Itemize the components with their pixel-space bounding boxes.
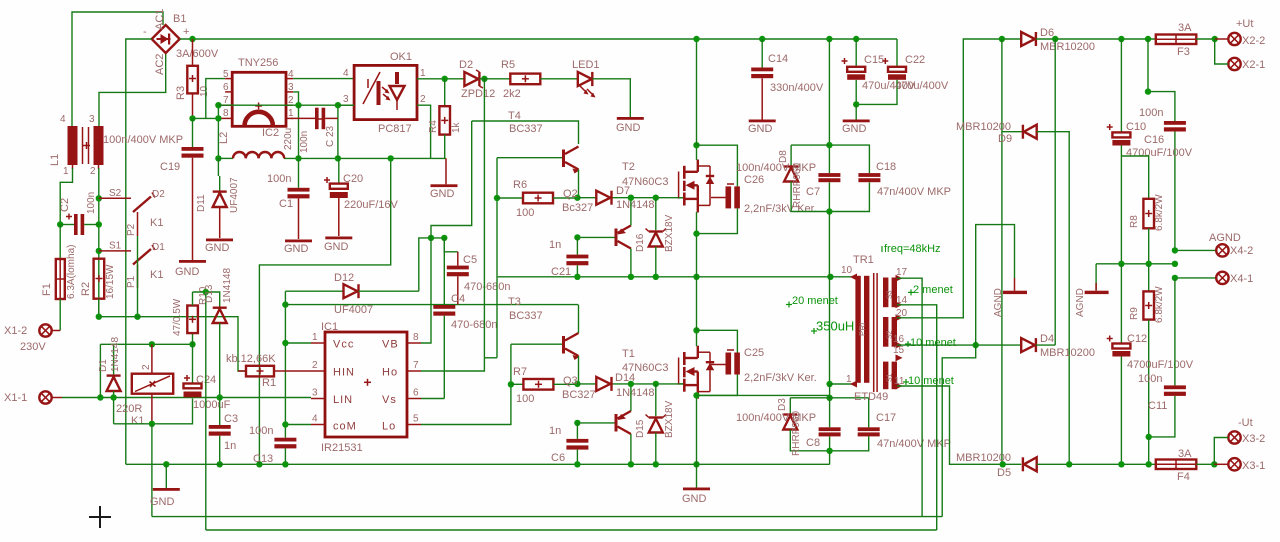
svg-text:-: - bbox=[143, 26, 147, 38]
node gnd D15 bbox=[653, 461, 659, 467]
diode D3 RHRP960 bbox=[777, 398, 830, 456]
svg-text:2,2nF/3kV Ker.: 2,2nF/3kV Ker. bbox=[744, 372, 817, 384]
svg-text:220u: 220u bbox=[283, 128, 294, 150]
svg-text:4: 4 bbox=[288, 69, 294, 80]
capacitor C20 electrolytic bbox=[324, 158, 398, 236]
primary ground bus bbox=[126, 463, 830, 465]
svg-text:2 menet: 2 menet bbox=[913, 284, 953, 296]
wire R6 node column bbox=[496, 198, 498, 358]
wire TR pin20 up to D6 bbox=[897, 39, 1021, 318]
wire snubber2 row bbox=[790, 397, 868, 399]
svg-text:47n/400V MKP: 47n/400V MKP bbox=[877, 186, 951, 198]
node F3 in bbox=[1145, 36, 1151, 42]
resistor R1 bbox=[226, 353, 311, 389]
node D2 cathode bbox=[481, 76, 487, 82]
svg-text:X1-1: X1-1 bbox=[4, 392, 27, 404]
node X3 split bbox=[1211, 461, 1217, 467]
wire X1-1 row to IC1 LIN bbox=[62, 397, 311, 399]
svg-text:+Ut: +Ut bbox=[1236, 18, 1253, 30]
svg-text:T3: T3 bbox=[508, 296, 521, 308]
svg-text:BC337: BC337 bbox=[509, 123, 543, 135]
svg-text:C10: C10 bbox=[1126, 121, 1146, 133]
wire Lo link bbox=[421, 384, 511, 424]
svg-text:X3-2: X3-2 bbox=[1242, 433, 1265, 445]
svg-text:1n: 1n bbox=[224, 440, 236, 452]
label 2 menet green bbox=[908, 284, 953, 296]
svg-text:R8: R8 bbox=[1129, 215, 1140, 228]
wire relay drive down-left long bbox=[151, 424, 153, 517]
svg-text:GND: GND bbox=[205, 242, 230, 254]
svg-text:D11: D11 bbox=[196, 194, 207, 212]
capacitor C1 bbox=[267, 158, 310, 239]
svg-text:D2: D2 bbox=[459, 59, 473, 71]
wire IC1 pin4 stub bbox=[285, 424, 311, 426]
svg-text:X4-1: X4-1 bbox=[1230, 273, 1253, 285]
svg-text:C16: C16 bbox=[1144, 134, 1164, 146]
svg-text:LIN: LIN bbox=[333, 394, 353, 406]
svg-text:R2: R2 bbox=[80, 282, 92, 296]
wire winding return bottom long bbox=[206, 529, 937, 531]
ground GND below LED1 bbox=[616, 117, 644, 134]
wire X4-2 row bbox=[1175, 249, 1216, 251]
svg-text:8: 8 bbox=[223, 108, 229, 119]
svg-text:4700uF/100V: 4700uF/100V bbox=[1127, 359, 1194, 371]
wire C4 bottom to IC1 pin6 bbox=[421, 398, 444, 400]
wire TNY pins 7-8 column bbox=[217, 105, 219, 158]
node top bus C15 bbox=[853, 36, 859, 42]
svg-text:R6: R6 bbox=[513, 179, 527, 191]
node T1 drain bbox=[693, 327, 699, 333]
svg-text:+: + bbox=[183, 26, 189, 38]
svg-text:1: 1 bbox=[288, 108, 294, 119]
node D6 anode col bbox=[999, 36, 1005, 42]
svg-text:6.8k/2W: 6.8k/2W bbox=[1154, 286, 1165, 323]
node VS Q2 bbox=[628, 274, 634, 280]
wire C23 column bbox=[337, 105, 339, 158]
capacitor C16 bbox=[1126, 39, 1193, 250]
svg-text:6.3A(lomha): 6.3A(lomha) bbox=[66, 245, 77, 299]
svg-text:D16: D16 bbox=[635, 233, 646, 252]
diode D14 1N4148 bbox=[596, 372, 654, 399]
svg-text:47N60C3: 47N60C3 bbox=[622, 176, 668, 188]
svg-text:20 menet: 20 menet bbox=[792, 295, 838, 307]
diode D1 1N4148 bbox=[98, 337, 121, 424]
svg-text:7: 7 bbox=[223, 95, 229, 106]
svg-text:100n: 100n bbox=[249, 425, 273, 437]
svg-text:6: 6 bbox=[413, 388, 419, 399]
svg-text:220R: 220R bbox=[116, 403, 142, 415]
svg-text:MBR10200: MBR10200 bbox=[1040, 41, 1095, 53]
svg-text:C5: C5 bbox=[463, 254, 477, 266]
svg-text:C8: C8 bbox=[806, 437, 820, 449]
svg-text:BZX18V: BZX18V bbox=[664, 400, 675, 438]
svg-text:B1: B1 bbox=[173, 13, 186, 25]
svg-text:2: 2 bbox=[90, 166, 96, 177]
wire bridge minus to primary GND vertical bbox=[126, 39, 152, 464]
svg-text:5: 5 bbox=[413, 414, 419, 425]
node C21 top bbox=[574, 234, 580, 240]
svg-text:ETD49: ETD49 bbox=[854, 391, 888, 403]
capacitor C15 electrolytic bbox=[842, 39, 916, 104]
wire T1 drain to VS bus bbox=[696, 277, 698, 331]
resistor R4 bbox=[428, 79, 462, 159]
connector X4-2 bbox=[1209, 232, 1253, 257]
svg-text:Ho: Ho bbox=[382, 367, 398, 379]
node gate upper D16 tap bbox=[653, 195, 659, 201]
bridge rectifier B1 bbox=[143, 9, 219, 75]
diode D5 MBR10200 bbox=[956, 452, 1156, 479]
ground GND C15 bbox=[842, 104, 870, 135]
svg-text:3A: 3A bbox=[1178, 448, 1192, 460]
diode D6 MBR10200 bbox=[1021, 27, 1095, 53]
ground GND below C1 bbox=[284, 240, 312, 256]
node VS snubber bbox=[827, 274, 833, 280]
node D5 anode bbox=[1000, 461, 1006, 467]
svg-text:C15: C15 bbox=[864, 54, 884, 66]
svg-text:X2-2: X2-2 bbox=[1242, 35, 1265, 47]
label 20 menet green bbox=[786, 295, 838, 308]
svg-text:GND: GND bbox=[748, 123, 773, 135]
capacitor C18 bbox=[829, 161, 951, 212]
svg-text:X2-1: X2-1 bbox=[1242, 59, 1265, 71]
svg-text:7: 7 bbox=[413, 360, 419, 371]
svg-text:IC2: IC2 bbox=[262, 127, 279, 139]
svg-text:2: 2 bbox=[288, 95, 294, 106]
node T2 drain bbox=[693, 142, 699, 148]
svg-text:470-680n: 470-680n bbox=[451, 319, 498, 331]
svg-text:GND: GND bbox=[284, 243, 309, 255]
node top bus T2 bbox=[693, 36, 699, 42]
svg-text:47N60C3: 47N60C3 bbox=[622, 362, 668, 374]
node OK1 pin3 bbox=[335, 102, 341, 108]
svg-text:coM: coM bbox=[333, 421, 357, 433]
wire L1 pin2 down bbox=[98, 168, 100, 317]
wire center tap to AGND arch bbox=[976, 225, 1015, 346]
node center tap bbox=[973, 342, 979, 348]
wire winding feed long down bbox=[205, 292, 207, 530]
svg-text:3A: 3A bbox=[1178, 22, 1192, 34]
svg-text:100n/400V MKP: 100n/400V MKP bbox=[736, 162, 816, 174]
node snubber2 bottom bbox=[826, 448, 832, 454]
node relay row R10/C24 bbox=[189, 341, 195, 347]
node D1 bottom on X1 row bbox=[110, 394, 116, 400]
resistor R3 bbox=[175, 39, 210, 118]
capacitor C11 bbox=[1138, 278, 1186, 437]
node S2 row bbox=[96, 195, 102, 201]
node S1 row bbox=[96, 248, 102, 254]
inductor L1 common mode choke bbox=[49, 114, 104, 177]
wire relay poles to sense row bbox=[137, 236, 139, 317]
svg-text:350uH: 350uH bbox=[816, 319, 854, 334]
node VCC pin1 bbox=[282, 340, 288, 346]
node T3 emitter row bbox=[574, 381, 580, 387]
svg-text:100n: 100n bbox=[267, 173, 291, 185]
svg-text:K1: K1 bbox=[150, 217, 163, 229]
svg-text:1: 1 bbox=[63, 166, 69, 177]
svg-text:AC1: AC1 bbox=[154, 9, 166, 30]
svg-text:C4: C4 bbox=[451, 293, 465, 305]
svg-text:Vs: Vs bbox=[382, 394, 397, 406]
connector X3-1 bbox=[1214, 458, 1265, 472]
node C23 column top bbox=[335, 155, 341, 161]
svg-text:freq=48kHz: freq=48kHz bbox=[884, 243, 941, 255]
capacitor C14 bbox=[751, 39, 824, 120]
node gnd T1 bbox=[693, 461, 699, 467]
svg-text:GND: GND bbox=[430, 188, 455, 200]
svg-text:1N4148: 1N4148 bbox=[222, 268, 233, 303]
svg-text:LED1: LED1 bbox=[572, 59, 600, 71]
svg-text:GND: GND bbox=[150, 496, 175, 508]
svg-text:AGND: AGND bbox=[993, 288, 1004, 317]
diode D8 RHRP860 bbox=[778, 145, 829, 211]
svg-text:C1: C1 bbox=[279, 198, 293, 210]
svg-text:4700uF/100V: 4700uF/100V bbox=[1126, 147, 1193, 159]
svg-text:16: 16 bbox=[893, 334, 905, 345]
svg-text:K1: K1 bbox=[131, 415, 144, 427]
transistor Q3 BC327 bbox=[562, 375, 634, 464]
node R6 left bbox=[494, 195, 500, 201]
label 350uH green bbox=[811, 319, 854, 335]
node X1 row corner bbox=[97, 344, 103, 400]
svg-text:1000uF: 1000uF bbox=[193, 399, 231, 411]
node mid row C10 bbox=[1118, 261, 1124, 267]
wire D6 cathode col to D4 bbox=[1054, 39, 1056, 345]
svg-text:X1-2: X1-2 bbox=[4, 325, 27, 337]
ground GND below D11 bbox=[205, 239, 233, 255]
node COM pin4 bbox=[282, 421, 288, 427]
wire TR pin17 down long bbox=[897, 278, 922, 516]
svg-text:8: 8 bbox=[413, 332, 419, 343]
wire AC2 to L1 bbox=[99, 53, 166, 126]
ground GND T1 source bbox=[682, 464, 710, 505]
svg-text:10: 10 bbox=[841, 265, 853, 276]
svg-text:C22: C22 bbox=[905, 54, 925, 66]
svg-text:P2: P2 bbox=[126, 223, 137, 236]
svg-text:C11: C11 bbox=[1148, 400, 1167, 412]
capacitor C6 bbox=[549, 423, 588, 464]
wire R9 join down bbox=[1148, 437, 1150, 464]
svg-text:100n: 100n bbox=[299, 131, 310, 153]
svg-text:2k2: 2k2 bbox=[503, 88, 521, 100]
svg-text:BZX18V: BZX18V bbox=[664, 214, 675, 252]
wire TR pin16 row bbox=[897, 344, 1021, 346]
svg-text:TNY256: TNY256 bbox=[238, 57, 278, 69]
node mid row R8 bbox=[1146, 261, 1152, 267]
svg-text:UF4007: UF4007 bbox=[334, 304, 373, 316]
wire VCC column bbox=[284, 291, 286, 438]
wire OK1 pin1 row bbox=[417, 78, 464, 80]
node C10 col top bbox=[1118, 36, 1124, 42]
svg-text:D1: D1 bbox=[98, 359, 109, 372]
node top bus snubber col bbox=[826, 36, 832, 42]
resistor R7 bbox=[511, 366, 578, 405]
svg-text:Lo: Lo bbox=[382, 421, 396, 433]
svg-text:1: 1 bbox=[420, 68, 426, 79]
capacitor C26 bbox=[697, 145, 817, 233]
resistor R10 bbox=[172, 286, 209, 344]
node X4-2 row bbox=[1172, 247, 1178, 253]
origin cross bbox=[89, 506, 111, 528]
svg-text:D2: D2 bbox=[152, 189, 165, 200]
wire gate row lower bbox=[577, 383, 683, 385]
capacitor C23 bbox=[291, 108, 338, 153]
svg-text:100n/400V MKP: 100n/400V MKP bbox=[103, 134, 183, 146]
diode D12 UF4007 bbox=[285, 272, 418, 316]
wire D12 to boot node bbox=[419, 238, 445, 291]
node C2 left bbox=[57, 221, 63, 227]
svg-text:GND: GND bbox=[616, 122, 641, 134]
wire C1 column bbox=[298, 105, 300, 158]
wire primary bottom row bbox=[697, 394, 830, 396]
svg-text:15: 15 bbox=[893, 345, 905, 356]
wire L1 pin1 to F1 column bbox=[60, 168, 72, 225]
capacitor C21 bbox=[549, 237, 588, 278]
connector X4-1 bbox=[1216, 272, 1253, 285]
ground GND C14 bbox=[748, 120, 776, 136]
node C20 top bbox=[338, 157, 340, 159]
transistor T4 BC337 bbox=[497, 110, 580, 198]
wire mains relay row bbox=[100, 343, 192, 345]
wire D6 output row bbox=[1036, 38, 1156, 40]
svg-text:S3: S3 bbox=[887, 290, 894, 299]
label 10 menet S1 green bbox=[903, 375, 954, 387]
svg-text:Bc327: Bc327 bbox=[562, 202, 593, 214]
svg-text:Q2: Q2 bbox=[563, 188, 578, 200]
svg-text:16/15W: 16/15W bbox=[105, 264, 116, 299]
inductor IC2 arch bbox=[245, 103, 295, 151]
svg-text:1: 1 bbox=[312, 332, 318, 343]
wire TR pin1 link bbox=[830, 384, 852, 398]
node X2 split bbox=[1212, 36, 1218, 42]
node T4 emitter row bbox=[574, 195, 580, 201]
node gnd stub bbox=[163, 461, 169, 467]
svg-text:3: 3 bbox=[89, 114, 95, 125]
wire snubber2 to gnd rail bbox=[829, 451, 831, 465]
svg-text:4: 4 bbox=[60, 114, 66, 125]
svg-text:100n: 100n bbox=[86, 192, 97, 214]
svg-text:PRI: PRI bbox=[858, 323, 867, 336]
diode LED1 bbox=[572, 59, 600, 98]
svg-text:Q3: Q3 bbox=[563, 375, 578, 387]
node pole row bbox=[134, 314, 140, 320]
svg-text:4: 4 bbox=[343, 68, 349, 79]
diode D7 1N4148 bbox=[596, 185, 654, 211]
svg-text:MBR10200: MBR10200 bbox=[1040, 347, 1095, 359]
svg-text:F4: F4 bbox=[1177, 471, 1190, 483]
node gnd net corner bbox=[256, 461, 262, 467]
IC IR21531 bbox=[311, 321, 421, 454]
node boot VB right bbox=[441, 235, 447, 241]
svg-text:C6: C6 bbox=[551, 452, 565, 464]
transistor T3 BC337 bbox=[508, 296, 580, 384]
node C2 right bbox=[96, 221, 102, 227]
svg-text:F3: F3 bbox=[1177, 46, 1190, 58]
resistor R9 bbox=[1129, 264, 1165, 437]
svg-text:C 23: C 23 bbox=[325, 125, 336, 147]
wire IC1 pin1 stub bbox=[285, 342, 311, 344]
wire sense row to R1 bbox=[99, 317, 246, 371]
svg-text:D12: D12 bbox=[334, 272, 354, 284]
node top bus C14 bbox=[759, 36, 765, 42]
connector X3-2 bbox=[1214, 417, 1265, 464]
svg-text:R3: R3 bbox=[175, 86, 187, 100]
svg-text:AGND: AGND bbox=[1209, 232, 1241, 244]
svg-text:5: 5 bbox=[223, 69, 229, 80]
svg-text:OK1: OK1 bbox=[390, 51, 412, 63]
node R2 bottom bbox=[96, 314, 102, 320]
svg-text:-Ut: -Ut bbox=[1238, 417, 1253, 429]
optocoupler OK1 PC817 bbox=[343, 51, 426, 135]
svg-text:3: 3 bbox=[288, 82, 294, 93]
connector X1-2 bbox=[4, 324, 60, 353]
node X4-1 row bbox=[1172, 275, 1178, 281]
svg-text:6.8k/2W: 6.8k/2W bbox=[1154, 194, 1165, 231]
node bridge plus bbox=[189, 36, 195, 42]
svg-text:3A/600V: 3A/600V bbox=[176, 48, 219, 60]
ground AGND 1 bbox=[993, 278, 1027, 317]
label freq green bbox=[879, 243, 941, 255]
diode D9 MBR10200 bbox=[956, 121, 1069, 464]
svg-text:17: 17 bbox=[896, 267, 908, 278]
ground AGND 2 bbox=[1075, 283, 1109, 317]
svg-text:C20: C20 bbox=[343, 173, 363, 185]
svg-text:1N4148: 1N4148 bbox=[616, 199, 655, 211]
svg-text:6: 6 bbox=[223, 82, 229, 93]
zener D16 BZX18V bbox=[635, 198, 675, 277]
node C6 top bbox=[574, 420, 580, 426]
wire TNY pin3 stub bbox=[293, 92, 298, 105]
svg-text:C18: C18 bbox=[876, 161, 896, 173]
svg-text:VB: VB bbox=[382, 339, 399, 351]
node D13 column X1 row bbox=[217, 394, 223, 400]
svg-text:D9: D9 bbox=[998, 133, 1012, 145]
aux ground rail bbox=[218, 157, 446, 159]
wire X4-1 row bbox=[1175, 277, 1216, 279]
wire D6 anode col down bbox=[1001, 39, 1003, 464]
node mid row C16 bbox=[1172, 261, 1178, 267]
svg-text:BC337: BC337 bbox=[509, 310, 543, 322]
svg-text:IC1: IC1 bbox=[321, 321, 338, 333]
svg-text:D3: D3 bbox=[777, 398, 788, 411]
node C1 column top bbox=[295, 155, 301, 161]
ground GND aux rail end bbox=[430, 158, 458, 200]
node C15 bottom bbox=[853, 101, 859, 107]
node aux rail D12 tap bbox=[388, 155, 394, 161]
svg-text:47/0.5W: 47/0.5W bbox=[172, 298, 183, 336]
svg-text:GND: GND bbox=[842, 123, 867, 135]
resistor R8 bbox=[1121, 156, 1165, 264]
svg-text:D4: D4 bbox=[1040, 333, 1054, 345]
svg-text:10 menet: 10 menet bbox=[910, 337, 956, 349]
wire relay drive bottom long bbox=[152, 516, 942, 518]
svg-text:F1: F1 bbox=[41, 283, 53, 296]
capacitor C25 bbox=[697, 330, 817, 395]
node C3 on gnd bus bbox=[217, 461, 223, 467]
svg-text:C13: C13 bbox=[253, 453, 273, 465]
resistor R5 bbox=[501, 59, 540, 100]
svg-text:D5: D5 bbox=[997, 467, 1011, 479]
node snubber bottom bbox=[826, 208, 832, 214]
wire center tap jog bbox=[942, 345, 976, 516]
svg-text:330n/400V: 330n/400V bbox=[770, 82, 824, 94]
inductor L2 bbox=[218, 132, 284, 159]
svg-text:470-680n: 470-680n bbox=[464, 281, 511, 293]
VCC bus to T3 collector bbox=[285, 304, 578, 306]
node aux rail left bbox=[215, 155, 221, 161]
node D9 col gnd row bbox=[1066, 461, 1072, 467]
node R3 bottom bbox=[189, 115, 195, 121]
wire R10 D13 top link bbox=[193, 292, 220, 308]
